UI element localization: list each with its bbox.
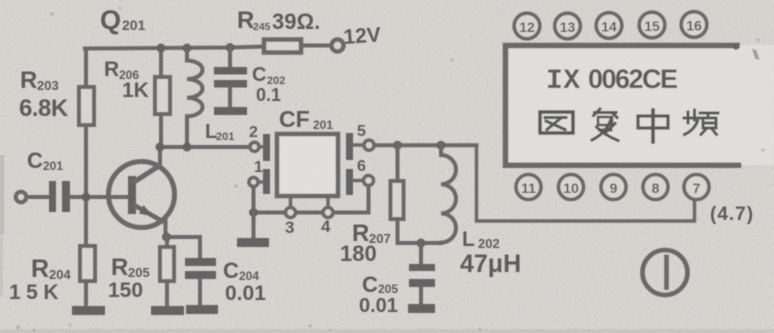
inductor L202 xyxy=(441,145,456,243)
IC pin 12 xyxy=(514,13,540,39)
transistor Q201 xyxy=(109,162,175,228)
resistor R207 xyxy=(391,181,404,219)
CF pin2 terminal xyxy=(250,142,259,151)
CF pin4 terminal xyxy=(323,208,333,218)
CF pin4 leg xyxy=(326,196,330,208)
node CF ground xyxy=(249,208,258,217)
capacitor C202 xyxy=(214,67,247,75)
ground under C205 xyxy=(408,304,435,313)
resistor R203 xyxy=(79,87,94,125)
page marker circled 1 xyxy=(643,250,688,295)
ground under C202 xyxy=(214,107,247,115)
wire input to C201 xyxy=(27,195,50,199)
node R207 top xyxy=(393,141,402,150)
ground under R205 xyxy=(151,306,184,315)
resistor R245 xyxy=(264,40,301,53)
hanzi tu 图 xyxy=(540,112,573,133)
wire R207-L202 bottom link xyxy=(398,241,442,245)
node emitter junction xyxy=(162,233,171,242)
ground under C204 xyxy=(186,305,218,314)
hanzi 图象中频 hand drawn xyxy=(540,109,718,142)
wire emitter down xyxy=(164,218,168,237)
CF pin5 terminal xyxy=(353,143,364,147)
hanzi pin 频 xyxy=(684,110,718,135)
IC pin 11 xyxy=(516,175,541,200)
wire R207 leads xyxy=(396,145,400,243)
wire R205 leads xyxy=(165,237,169,306)
node rail R206 xyxy=(157,44,166,53)
wire C205 leads xyxy=(419,243,423,304)
resistor R205 xyxy=(160,247,174,281)
ceramic filter CF201 xyxy=(277,134,338,196)
CF pin3 leg xyxy=(289,196,293,208)
wire long run to pin7 xyxy=(477,145,695,221)
wire C201 to base xyxy=(70,195,128,199)
resistor R204 xyxy=(80,246,95,281)
CF pin5 electrode xyxy=(346,133,353,160)
IC IX0062CE box xyxy=(505,45,774,165)
hanzi zhong 中 xyxy=(638,110,668,142)
node C205 tap xyxy=(417,239,426,248)
wire CF ground stem xyxy=(252,213,256,239)
ground CF xyxy=(237,238,269,247)
node L202 top xyxy=(437,141,446,150)
IC pin 16 xyxy=(681,12,707,38)
CF pin1 terminal xyxy=(258,180,263,184)
IC pin 9 xyxy=(601,175,626,200)
wire top supply rail xyxy=(85,47,264,49)
IC pin 10 xyxy=(559,175,584,200)
wire left branch vertical xyxy=(84,49,88,307)
CF pin1 electrode xyxy=(263,169,270,194)
input terminal xyxy=(16,192,26,202)
IC pin 8 xyxy=(643,175,668,200)
wire pin6 to bottom rail xyxy=(367,186,371,213)
resistor R206 xyxy=(155,77,170,114)
ground under R204 xyxy=(72,306,105,315)
node L201 bottom xyxy=(183,143,192,152)
node rail C202 xyxy=(226,43,235,52)
IC pin 13 xyxy=(555,13,581,39)
CF pin6 electrode xyxy=(346,169,353,195)
IC pin 14 xyxy=(596,13,622,39)
wire collector line to CF pin2 xyxy=(160,145,250,149)
wire pin5 line xyxy=(374,143,477,147)
wire R245 to 12V terminal xyxy=(301,44,331,48)
CF pin2 electrode xyxy=(263,134,270,161)
CF bottom rail xyxy=(254,211,369,215)
capacitor C204 xyxy=(185,258,216,266)
node collector xyxy=(156,143,165,152)
node base junction xyxy=(82,193,91,202)
capacitor C205 xyxy=(409,264,435,271)
terminal 12V xyxy=(332,40,344,52)
IC pin 15 xyxy=(639,12,665,38)
CF pin3 terminal xyxy=(286,208,296,218)
wire C202 leads xyxy=(228,48,232,108)
inductor L201 xyxy=(187,48,203,147)
node rail L201 xyxy=(183,44,192,53)
hanzi xiang 象 xyxy=(592,109,618,141)
capacitor C201 xyxy=(49,181,56,212)
IC pin 7 xyxy=(684,175,709,200)
CF pin6 terminal xyxy=(353,179,363,183)
wire R206 leads xyxy=(159,48,163,147)
wire emitter to C204 xyxy=(166,235,200,239)
wire collector up xyxy=(158,147,162,166)
wire pin1 down xyxy=(252,187,256,213)
wire C204 leads xyxy=(198,237,202,305)
